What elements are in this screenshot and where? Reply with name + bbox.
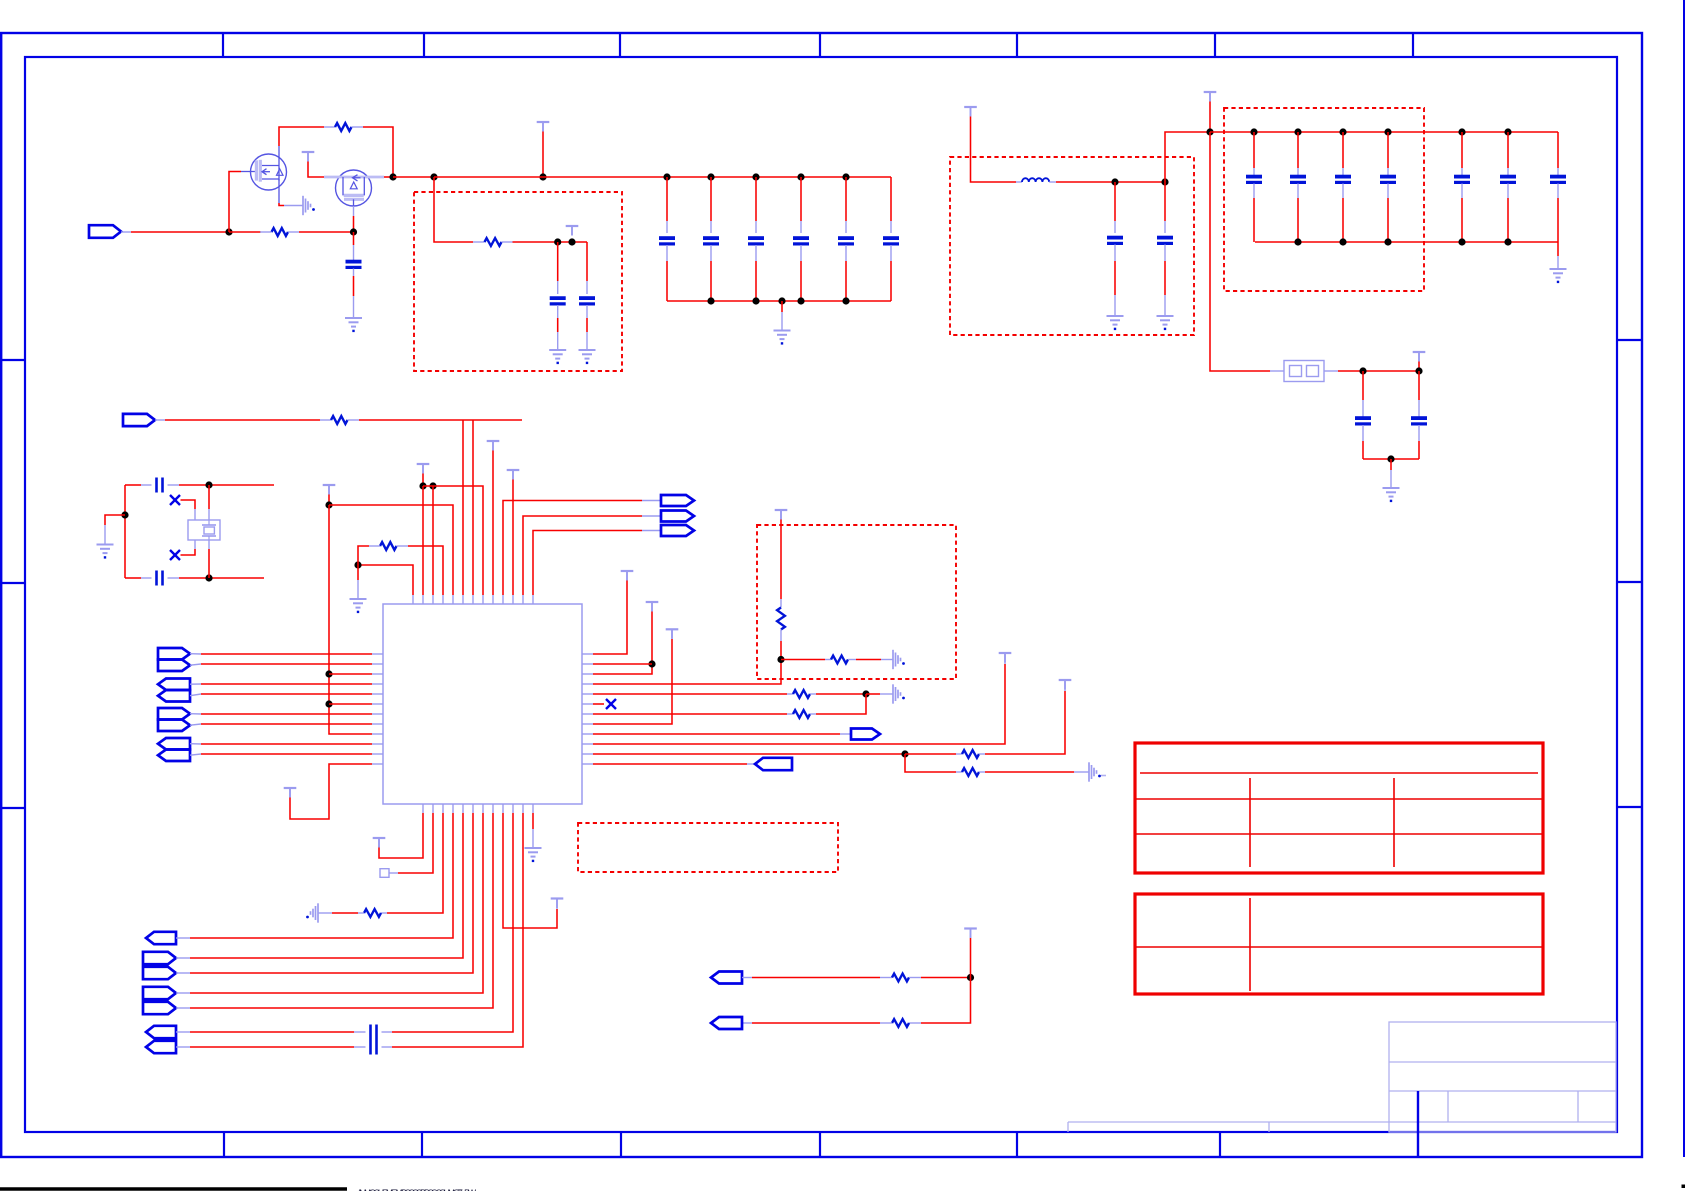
wire R14 to port PR: [742, 1022, 892, 1024]
wire R1 to node B: [352, 127, 394, 177]
wire PK to U1 pin B5: [176, 813, 463, 958]
wire cap C6 bottom: [845, 245, 847, 301]
dashed box annotation: [578, 823, 838, 872]
wire PE1 to U1 pin L4: [190, 683, 372, 685]
ground C9: [579, 350, 596, 363]
port PM: [143, 987, 176, 999]
ground R11: [1089, 762, 1101, 781]
ferrite bead FB1: [1284, 361, 1324, 382]
wire cap C16 bottom: [1461, 184, 1463, 243]
port PO: [146, 1026, 176, 1038]
capacitor C20 wire bottom: [1418, 425, 1420, 459]
port PI: [755, 758, 792, 770]
node C junction: [430, 173, 437, 180]
node H junction: [1161, 178, 1168, 185]
power symbol VDD T14: [284, 788, 297, 798]
ground pullup: [893, 650, 905, 669]
wire cap C2 bottom: [666, 245, 668, 301]
node U junction: [862, 690, 869, 697]
port PF1: [158, 708, 190, 720]
wire right bank bottom rail: [1255, 241, 1558, 243]
wire U1 pin B12 to ground: [532, 813, 534, 848]
node G junction: [1111, 178, 1118, 185]
node L junction: [1387, 455, 1394, 462]
wire Q1 source to ground: [279, 203, 303, 206]
ground bead caps: [1383, 488, 1400, 501]
wire node A to Q1 gate: [229, 172, 255, 233]
wire U1 pin B2 to testpoint: [389, 813, 433, 873]
port PA: [661, 495, 694, 506]
wire node P to ground: [357, 565, 359, 599]
port VIN: [89, 225, 121, 238]
wire cap C2 top: [666, 177, 668, 233]
capacitor C15: [1380, 177, 1396, 183]
wire cap C12 bottom: [1253, 184, 1255, 243]
node E junction: [554, 238, 561, 245]
wire node C into box: [434, 177, 485, 242]
wire cap bank bottom rail: [667, 300, 891, 302]
wire R9 to node U: [810, 694, 866, 714]
wire VDD T11 stem: [512, 480, 514, 596]
node right bank bottom junction 1: [1339, 238, 1346, 245]
wire PM to U1 pin B7: [176, 813, 483, 993]
wire PQ to R13: [742, 977, 892, 979]
port PF2: [158, 720, 190, 732]
wire PF2 to U1 pin L8: [190, 724, 372, 725]
capacitor C8 wire bottom: [557, 305, 559, 350]
capacitor C23: [371, 1025, 377, 1040]
capacitor C14: [1335, 177, 1351, 183]
wire U1 pin B3 to R12: [381, 813, 443, 913]
wire bus to pin L3: [329, 673, 372, 675]
wire VDD to Q2 gate: [308, 162, 325, 178]
capacitor C18: [1550, 177, 1566, 183]
power symbol VDD R1: [621, 571, 634, 581]
wire FB1 to node J: [1324, 370, 1419, 372]
wire R7 to ground: [848, 659, 893, 661]
resistor R2: [272, 228, 289, 236]
wire bottom rail to ground: [1557, 242, 1559, 269]
table revision block: [1135, 743, 1543, 873]
capacitor C9 wire bottom: [586, 305, 588, 350]
resistor R10: [962, 750, 979, 758]
power symbol VCCB: [1413, 352, 1426, 362]
IC U1 top pin leads: [413, 595, 533, 604]
port PQ: [711, 972, 742, 984]
resistor R6: [777, 608, 785, 630]
wire pin R2: [593, 663, 652, 665]
capacitor C21: [157, 478, 163, 493]
port PC: [661, 525, 694, 536]
resistor R9: [793, 710, 810, 718]
node bus pin L6 junction: [325, 700, 332, 707]
resistor R13: [892, 974, 909, 982]
wire X1 to Y1: [181, 500, 196, 520]
wire PL to U1 pin B6: [176, 813, 473, 973]
wire left bus down: [329, 505, 372, 734]
wire pin R11 to R10: [593, 753, 905, 755]
node R2 junction: [648, 660, 655, 667]
wire cap C15 top: [1387, 132, 1389, 176]
wire Q2 drain to node B: [384, 176, 393, 178]
wire R5 right to U1 pin T4: [397, 546, 444, 595]
wire pins T2 T3 T8 tie: [423, 486, 483, 595]
wire C24 to U1 pin B11: [382, 813, 524, 1047]
wire cap C4 top: [755, 177, 757, 233]
wire cap C18 bottom: [1557, 184, 1559, 243]
node top rail junction c2: [1339, 128, 1346, 135]
wire U1 pin T13 to port PC: [533, 531, 661, 596]
dashed box bulk caps: [1224, 108, 1424, 291]
ground C10: [1107, 316, 1124, 329]
bottom border zone ticks: [224, 1132, 1220, 1157]
node bottom rail junction 4: [842, 297, 849, 304]
wire VCC to L1: [971, 117, 1023, 183]
capacitor C24: [371, 1040, 377, 1055]
power symbol VDD T5: [323, 485, 336, 495]
wire R8 to node U: [810, 693, 866, 695]
wire bus to pin L6: [329, 703, 372, 705]
wire C21 to node M: [168, 484, 275, 486]
wire crystal bottom: [125, 577, 152, 579]
wire cap C15 bottom: [1387, 184, 1389, 243]
resistor R5: [380, 542, 397, 550]
wire pin R5 to R8: [593, 693, 793, 695]
capacitor C20 wire top: [1418, 371, 1420, 417]
power symbol VDD T15: [373, 838, 386, 848]
wire L1 to node G: [1049, 181, 1165, 183]
capacitor C11 wire top: [1164, 182, 1166, 233]
wire R11 to ground: [979, 771, 1089, 773]
resistor R8: [793, 690, 810, 698]
port PD2: [158, 660, 190, 672]
ground C8: [549, 350, 566, 363]
capacitor C9: [579, 298, 595, 304]
wire C23 to U1 pin B10: [382, 813, 514, 1032]
wire cap C17 top: [1507, 132, 1509, 176]
node A junction: [225, 228, 232, 235]
port PD1: [158, 648, 190, 660]
dashed box LC input filter: [950, 157, 1194, 335]
node S junction: [325, 501, 332, 508]
testpoint TP1: [380, 869, 389, 878]
node rail cap junction 4: [797, 173, 804, 180]
no-connect X U1 pin R6: [606, 699, 616, 709]
power symbol VDD T17: [964, 929, 977, 939]
capacitor C19 wire top: [1362, 371, 1364, 417]
no-connect X crystal pin 2: [170, 550, 180, 560]
wire PG2 to U1 pin L11: [190, 754, 372, 755]
power symbol VCC rail: [1204, 92, 1217, 102]
wire cap C13 bottom: [1297, 184, 1299, 243]
left border zone ticks: [1, 360, 25, 808]
node V junction: [901, 750, 908, 757]
node M junction: [205, 481, 212, 488]
capacitor C11: [1157, 238, 1173, 244]
wire VDD T17 to node W: [970, 938, 972, 978]
dashed box analog supply filter: [414, 192, 622, 371]
wire Y1 pin to node N: [208, 540, 210, 578]
capacitor C9 wire top: [586, 242, 588, 294]
wire R10 to VCC: [979, 682, 1065, 754]
node I junction: [1206, 128, 1213, 135]
stray pale tick: [1101, 775, 1106, 777]
node rail cap junction 2: [707, 173, 714, 180]
wire PG1 to U1 pin L10: [190, 743, 372, 745]
wire VIN to node A: [121, 231, 229, 233]
power symbol VDD T2: [417, 464, 430, 474]
node right bank bottom junction 4: [1504, 238, 1511, 245]
ground C1: [345, 318, 362, 331]
capacitor C11 wire bottom: [1164, 245, 1166, 316]
wire node V to R10: [905, 753, 962, 755]
port PP: [146, 1041, 176, 1053]
wire node V to R11: [905, 754, 962, 772]
wire PN to U1 pin B8: [176, 813, 493, 1008]
wire nRESET to R4: [155, 419, 331, 421]
wire cap C5 top: [800, 177, 802, 233]
node R junction: [429, 482, 436, 489]
node top rail junction c3: [1384, 128, 1391, 135]
wire node S to U1 pin T5: [329, 505, 453, 595]
node top rail junction c1: [1294, 128, 1301, 135]
transistor Q2: [324, 170, 384, 206]
wire VCCB stem: [1418, 362, 1420, 372]
capacitor C4: [748, 238, 764, 244]
node T junction: [777, 656, 784, 663]
wire VCC stem down: [1209, 102, 1211, 133]
node rail-VDD junction: [539, 173, 546, 180]
wire PP to C24: [176, 1046, 366, 1048]
power symbol VDD R23: [646, 602, 659, 612]
wire VDD T2 stem: [422, 474, 424, 487]
wire X2 to Y1: [181, 540, 196, 555]
capacitor C8 wire top: [557, 242, 559, 294]
capacitor C19: [1355, 418, 1371, 424]
wire PD1 to U1 pin L1: [190, 653, 372, 655]
node W junction: [967, 974, 974, 981]
bottom caption bar: [0, 1188, 476, 1191]
wire main rail: [434, 176, 891, 178]
ground right bank: [1550, 269, 1567, 282]
resistor R11: [962, 768, 979, 776]
table approval block: [1135, 894, 1543, 994]
wire VCC down to FB1: [1210, 132, 1284, 371]
wire Q1 drain to R1: [279, 127, 335, 146]
capacitor C5: [793, 238, 809, 244]
resistor R3: [485, 238, 502, 246]
power symbol VCC R11: [1059, 680, 1072, 690]
node top rail junction c4: [1458, 128, 1465, 135]
wire pin R10 to VCC: [593, 655, 1005, 744]
wire PO to C23: [176, 1031, 366, 1033]
capacitor C6: [838, 238, 854, 244]
capacitor C10: [1107, 238, 1123, 244]
power symbol VDD pullup: [775, 510, 788, 520]
capacitor C13: [1290, 177, 1306, 183]
power symbol VDD T16: [551, 899, 564, 909]
top border zone ticks: [223, 33, 1413, 57]
node right bank bottom junction 0: [1294, 238, 1301, 245]
node right bank bottom junction 3: [1458, 238, 1465, 245]
wire U1 pin L12 to VDD T14: [290, 764, 372, 819]
port PG1: [158, 738, 190, 750]
capacitor C7: [883, 238, 899, 244]
wire node W to R14: [909, 978, 971, 1024]
wire cap C13 top: [1297, 132, 1299, 176]
capacitor C20: [1411, 418, 1427, 424]
node bottom rail junction 3: [797, 297, 804, 304]
wire PE2 to U1 pin L5: [190, 694, 372, 696]
svg-text:AVM SCHEME M BSSSSBPSS SSHM S: AVM SCHEME M BSSSSBPSS SSHM STh.BW: [357, 1188, 476, 1191]
node O junction: [121, 511, 128, 518]
wire Q2 source to node D: [353, 206, 355, 232]
wire R5 left to node P: [358, 546, 380, 565]
wire PJ to U1 pin B4: [176, 813, 453, 938]
resistor R4: [331, 416, 348, 424]
wire node D to C1: [353, 232, 355, 261]
wire pin R7 to R9: [593, 713, 793, 715]
power symbol VDD T9: [487, 441, 500, 451]
ground Q1 source: [303, 196, 315, 215]
wire R12 to ground: [318, 912, 364, 914]
wire bead caps bottom: [1363, 458, 1419, 460]
wire crystal top: [125, 484, 152, 486]
wire PF1 to U1 pin L7: [190, 713, 372, 715]
wire U1 pin B1 to VDD T15: [379, 813, 423, 858]
wire node B to node C: [393, 176, 434, 178]
power symbol VDD Q2 gate: [302, 152, 315, 162]
port PE2: [158, 690, 190, 702]
wire node L to ground: [1390, 459, 1392, 488]
IC U1 bottom pin leads: [423, 804, 533, 813]
node bottom rail junction 1: [707, 297, 714, 304]
wire R3 to node E: [502, 241, 588, 243]
node B junction: [389, 173, 396, 180]
wire node A to R2: [229, 231, 261, 233]
wire U1 pin B9 to VDD T16: [503, 813, 557, 928]
wire VDD T5 stem: [328, 495, 330, 506]
wire VDD to pins R2 R3: [593, 612, 652, 675]
power symbol VDDA: [566, 226, 579, 236]
wire pin R8 to VDD: [593, 630, 672, 724]
wire U1 pins T6 T7 to nRESET net: [463, 420, 473, 595]
capacitor C22: [157, 571, 163, 586]
node rail cap junction 5: [842, 173, 849, 180]
wire bottom rail to ground: [781, 301, 783, 330]
wire R2 leads: [260, 231, 354, 233]
inductor L1: [1022, 178, 1049, 182]
adjacent sheet edge line: [1682, 0, 1685, 1188]
node P junction: [354, 561, 361, 568]
resistor R7: [831, 656, 848, 664]
wire PD2 to U1 pin L2: [190, 664, 372, 665]
capacitor C2: [659, 238, 675, 244]
node K junction: [1415, 367, 1422, 374]
ground cap bank: [774, 331, 791, 344]
wire cap C6 top: [845, 177, 847, 233]
node bottom rail junction 2: [752, 297, 759, 304]
node bus pin L3 junction: [325, 670, 332, 677]
resistor R1: [335, 123, 352, 131]
wire node T to R7: [781, 659, 831, 661]
IC U1 body: [383, 604, 582, 804]
no-connect X crystal pin 1: [170, 495, 180, 505]
wire cap C7 top: [890, 177, 892, 233]
ground R12: [306, 903, 318, 922]
wire U1 pin T1 to node P: [358, 565, 413, 595]
node J junction: [1359, 367, 1366, 374]
node right bank bottom junction 2: [1384, 238, 1391, 245]
wire R13 to node W: [909, 977, 971, 979]
wire pin R6 stub: [593, 703, 604, 705]
power symbol VDD R8: [666, 629, 679, 639]
wire cap C4 bottom: [755, 245, 757, 301]
wire cap C12 top: [1253, 132, 1255, 176]
wire R6 to node T: [593, 630, 781, 685]
capacitor C12: [1246, 177, 1262, 183]
wire node O to ground: [105, 515, 125, 544]
wire cap C17 bottom: [1507, 184, 1509, 243]
ground C11: [1157, 316, 1174, 329]
ground crystal: [97, 545, 114, 558]
wire pin R12 to port PI: [593, 763, 755, 765]
power symbol VCC R10: [999, 653, 1012, 663]
ground node U: [893, 684, 905, 703]
wire C1 to ground: [353, 269, 355, 319]
ground U1 pin B12: [525, 848, 542, 861]
resistor R14: [892, 1019, 909, 1027]
IC U1 left pin leads: [372, 654, 383, 764]
port PG2: [158, 750, 190, 762]
node D junction: [350, 228, 357, 235]
wire crystal left side: [124, 485, 126, 578]
port PB: [661, 511, 694, 522]
node top rail junction c0: [1250, 128, 1257, 135]
wire node H up to rail: [1165, 132, 1210, 182]
node bottom rail ground junction: [778, 297, 785, 304]
wire U1 pin T10 to port PA: [503, 501, 661, 596]
resistor R12: [364, 909, 381, 917]
wire R4 to IC pins: [348, 419, 523, 421]
right border zone ticks: [1617, 340, 1642, 807]
node rail cap junction 3: [752, 173, 759, 180]
wire C22 to node N: [168, 577, 265, 579]
port PR: [711, 1017, 742, 1029]
port PE1: [158, 679, 190, 691]
transistor Q1: [251, 146, 287, 203]
IC U1 right pin leads: [582, 654, 593, 764]
power symbol VCC in: [964, 107, 977, 117]
port PN: [143, 1002, 176, 1014]
ground node P: [350, 599, 367, 612]
wire cap C18 top: [1557, 132, 1559, 176]
port PH: [851, 729, 880, 740]
wire cap C3 bottom: [710, 245, 712, 301]
node N junction: [205, 574, 212, 581]
port PL: [143, 967, 176, 979]
capacitor C16: [1454, 177, 1470, 183]
wire node U to ground: [866, 693, 893, 695]
node rail cap junction 1: [663, 173, 670, 180]
wire cap C3 top: [710, 177, 712, 233]
power symbol VDD T11: [507, 470, 520, 480]
capacitor C19 wire bottom: [1362, 425, 1364, 459]
wire cap C14 top: [1342, 132, 1344, 176]
power symbol VDD rail: [537, 122, 550, 132]
capacitor C17: [1500, 177, 1516, 183]
wire cap C14 bottom: [1342, 184, 1344, 243]
